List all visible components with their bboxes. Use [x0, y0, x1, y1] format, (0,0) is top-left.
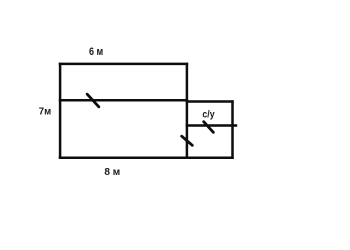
door tick on middle wall	[87, 94, 99, 107]
wall: top edge of c/y room	[186, 100, 234, 103]
door tick on vertical divider	[182, 136, 193, 145]
door tick on c/y divider	[204, 122, 214, 133]
svg-text:с/у: с/у	[202, 109, 214, 121]
wall: top edge of upper room	[59, 63, 188, 66]
wall: right edge of c/y room	[231, 100, 234, 159]
wall: vertical divider x=187	[186, 63, 189, 159]
wall: middle horizontal at y=100	[59, 99, 188, 102]
wall: left outer edge	[59, 63, 62, 159]
wall: c/y divider with overshoot	[186, 124, 238, 127]
svg-text:6 м: 6 м	[89, 46, 103, 58]
wall: bottom outer edge	[59, 157, 234, 160]
svg-text:7м: 7м	[39, 105, 52, 117]
svg-text:8 м: 8 м	[104, 167, 120, 178]
